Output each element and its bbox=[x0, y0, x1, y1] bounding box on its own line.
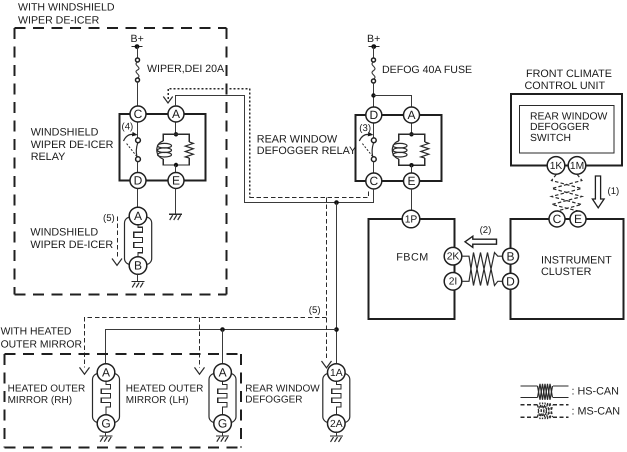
relay 2 pin A bbox=[404, 107, 420, 123]
wire mirror RH G to ground bbox=[105, 432, 107, 436]
svg-text:DEFOGGER: DEFOGGER bbox=[530, 122, 590, 133]
svg-text:CLUSTER: CLUSTER bbox=[541, 266, 592, 278]
svg-text:DEFOG 40A FUSE: DEFOG 40A FUSE bbox=[382, 64, 472, 76]
rear window defogger switch box bbox=[520, 106, 615, 154]
relay 2 pin E bbox=[404, 173, 420, 189]
relay 1 coil bbox=[157, 141, 164, 159]
FBCM box bbox=[369, 219, 455, 319]
legend: MS-CAN symbol bbox=[521, 403, 621, 419]
svg-text:DEFOGGER: DEFOGGER bbox=[245, 394, 302, 405]
wire relay1 A to relay2 C (feed wire) bbox=[176, 96, 374, 203]
FBCM pin 2K bbox=[444, 247, 462, 265]
svg-text:SWITCH: SWITCH bbox=[530, 133, 571, 144]
svg-text:(2): (2) bbox=[480, 225, 492, 236]
relay 1 pin D bbox=[130, 173, 146, 189]
wire B+ to fuse bbox=[137, 47, 139, 59]
svg-text:DEFOGGER RELAY: DEFOGGER RELAY bbox=[257, 145, 356, 157]
front climate control unit box bbox=[511, 94, 622, 165]
svg-text:WIPER DE-ICER: WIPER DE-ICER bbox=[18, 15, 100, 27]
mirror LH pin G bbox=[214, 415, 232, 433]
defogger pin 2A bbox=[328, 415, 346, 433]
svg-text:1K: 1K bbox=[550, 161, 563, 172]
relay 2 switch (3) bbox=[359, 123, 376, 173]
wire relay1 D to wiper de-icer pin A bbox=[137, 189, 139, 208]
svg-text:INSTRUMENT: INSTRUMENT bbox=[541, 255, 612, 267]
svg-text:WINDSHIELD: WINDSHIELD bbox=[30, 227, 98, 239]
relay 1 resistor bbox=[185, 142, 193, 158]
HS-CAN twisted pair FBCM to instrument cluster bbox=[462, 253, 503, 286]
fuse WIPER,DEI 20A bbox=[136, 58, 140, 82]
cluster pin B bbox=[503, 248, 519, 264]
svg-text:: HS-CAN: : HS-CAN bbox=[572, 386, 619, 398]
svg-text:REAR WINDOW: REAR WINDOW bbox=[257, 134, 338, 146]
relay 1 switch (4) bbox=[122, 122, 141, 173]
wiper de-icer pin A bbox=[129, 207, 147, 225]
node: junction heated mirror bus bbox=[334, 327, 339, 332]
mirror RH pin G bbox=[97, 415, 115, 433]
relay 1 pin C bbox=[130, 106, 146, 122]
svg-text:(4): (4) bbox=[122, 122, 134, 133]
svg-text:A: A bbox=[219, 366, 227, 380]
wire defogger 2A to ground bbox=[336, 432, 338, 436]
svg-text:CONTROL UNIT: CONTROL UNIT bbox=[525, 80, 606, 92]
wire heated mirror bus bbox=[106, 330, 337, 364]
svg-text:WINDSHIELD: WINDSHIELD bbox=[31, 126, 99, 138]
ground (mirror LH) bbox=[216, 436, 229, 442]
legend: HS-CAN symbol bbox=[521, 384, 619, 400]
mirror LH heater element bbox=[218, 381, 227, 415]
svg-text:(3): (3) bbox=[359, 123, 371, 134]
component: heated outer mirror RH bbox=[93, 364, 120, 433]
enclosure box: with windshield wiper de-icer bbox=[15, 28, 227, 295]
relay 1 pin A bbox=[168, 106, 184, 122]
cluster pin C bbox=[549, 211, 565, 227]
svg-text:1M: 1M bbox=[570, 161, 584, 172]
power B+ (defogger circuit) bbox=[367, 33, 380, 49]
signal route (5) dashed: down to heated mirrors bbox=[80, 198, 332, 375]
svg-text:G: G bbox=[101, 417, 110, 431]
svg-text:(5): (5) bbox=[309, 305, 321, 316]
FBCM pin 1P bbox=[402, 210, 420, 228]
svg-text:E: E bbox=[407, 174, 415, 188]
signal (5) label and arrow at wiper de-icer bbox=[103, 213, 122, 265]
svg-text:WIPER DE-ICER: WIPER DE-ICER bbox=[31, 139, 114, 151]
svg-text:WITH WINDSHIELD: WITH WINDSHIELD bbox=[18, 2, 115, 14]
svg-text:WIPER DE-ICER: WIPER DE-ICER bbox=[30, 239, 113, 251]
wire fuse to relay2 pin D with branch to pin A bbox=[373, 83, 375, 107]
svg-text:HEATED OUTER: HEATED OUTER bbox=[126, 384, 204, 395]
relay U2: rear window defogger relay box bbox=[356, 115, 442, 181]
svg-text:A: A bbox=[407, 108, 415, 122]
ground (wiper de-icer pin B) bbox=[132, 282, 145, 288]
node: junction mirror LH bbox=[220, 327, 225, 332]
svg-text:OUTER MIRROR: OUTER MIRROR bbox=[1, 339, 83, 350]
wire relay2 E to FBCM 1P bbox=[411, 189, 413, 210]
svg-text:B+: B+ bbox=[131, 33, 144, 45]
ground (mirror RH) bbox=[100, 436, 113, 442]
climate unit pin 1M bbox=[568, 157, 586, 175]
mirror RH heater element bbox=[101, 381, 110, 415]
wire branch to relay2 pin A bbox=[374, 96, 412, 108]
cluster pin D bbox=[503, 273, 519, 289]
wire fuse to relay pin C bbox=[137, 82, 139, 106]
relay 2 coil and resistor (parallel) bbox=[392, 123, 429, 173]
mirror LH pin A bbox=[214, 364, 232, 382]
mirror RH pin A bbox=[97, 364, 115, 382]
node: fuse branch junction bbox=[371, 93, 375, 97]
svg-text:C: C bbox=[134, 107, 143, 121]
climate unit pin 1K bbox=[547, 157, 565, 175]
power B+ (wiper de-icer circuit) bbox=[131, 33, 144, 49]
relay 2 resistor bbox=[421, 142, 429, 158]
component: rear window defogger bbox=[323, 364, 350, 433]
ground (rear window defogger) bbox=[330, 436, 343, 442]
svg-text:E: E bbox=[574, 212, 582, 226]
relay 2 pin C bbox=[366, 173, 382, 189]
svg-text:REAR WINDOW: REAR WINDOW bbox=[245, 383, 320, 394]
relay 2 pin D bbox=[366, 107, 382, 123]
svg-text:D: D bbox=[369, 108, 378, 122]
wire relay1 E to ground bbox=[175, 189, 177, 215]
relay U1: windshield wiper de-icer relay box bbox=[120, 114, 206, 181]
svg-text:REAR WINDOW: REAR WINDOW bbox=[530, 111, 608, 122]
arrow (1) signal direction bbox=[592, 176, 619, 208]
svg-text:D: D bbox=[134, 174, 143, 188]
svg-text:D: D bbox=[506, 274, 515, 288]
relay 1 coil and resistor (parallel) bbox=[157, 122, 194, 173]
svg-text:2A: 2A bbox=[330, 419, 343, 430]
arrowhead into mirror RH bbox=[80, 367, 90, 374]
defogger pin 1A bbox=[328, 364, 346, 382]
enclosure box: with heated outer mirror bbox=[5, 354, 242, 448]
fuse DEFOG 40A bbox=[372, 58, 376, 83]
svg-text:B: B bbox=[506, 249, 514, 263]
component: heated outer mirror LH bbox=[209, 364, 236, 433]
svg-text:MIRROR (RH): MIRROR (RH) bbox=[8, 395, 72, 406]
svg-text:E: E bbox=[172, 174, 180, 188]
svg-text:1A: 1A bbox=[330, 368, 343, 379]
arrow (2) signal direction bbox=[465, 225, 497, 247]
svg-text:(5): (5) bbox=[103, 213, 115, 224]
svg-text:HEATED OUTER: HEATED OUTER bbox=[8, 384, 86, 395]
wire junction down to rear window defogger 1A bbox=[336, 203, 338, 364]
wiper de-icer pin B bbox=[129, 257, 147, 275]
svg-text:FRONT CLIMATE: FRONT CLIMATE bbox=[526, 68, 612, 80]
svg-text:MIRROR (LH): MIRROR (LH) bbox=[126, 395, 189, 406]
signal route (5) dotted: relay1 A area to relay2 C bbox=[163, 89, 368, 198]
svg-text:A: A bbox=[134, 209, 142, 223]
svg-text:(1): (1) bbox=[608, 186, 620, 197]
component: windshield wiper de-icer (outline) bbox=[125, 217, 152, 265]
svg-text:: MS-CAN: : MS-CAN bbox=[572, 406, 621, 418]
svg-text:C: C bbox=[553, 212, 562, 226]
wire mirror LH G to ground bbox=[222, 432, 224, 436]
svg-text:FBCM: FBCM bbox=[396, 251, 429, 263]
svg-text:B: B bbox=[134, 259, 142, 273]
svg-text:G: G bbox=[218, 417, 227, 431]
svg-text:1P: 1P bbox=[405, 214, 418, 225]
relay 1 pin E bbox=[168, 173, 184, 189]
svg-text:B+: B+ bbox=[367, 33, 380, 45]
defogger heater element bbox=[332, 381, 341, 415]
svg-text:2K: 2K bbox=[447, 252, 460, 263]
FBCM pin 2I bbox=[444, 273, 462, 291]
svg-text:2I: 2I bbox=[449, 277, 458, 288]
ground (relay 1 pin E) bbox=[169, 214, 182, 220]
wire wiper de-icer B to ground bbox=[137, 274, 139, 281]
svg-text:WITH HEATED: WITH HEATED bbox=[1, 327, 72, 338]
MS-CAN twisted pair climate unit to cluster bbox=[552, 174, 582, 211]
svg-text:RELAY: RELAY bbox=[31, 151, 66, 163]
wire bus to mirror LH pin A bbox=[222, 330, 224, 364]
wiper de-icer heater element bbox=[134, 225, 143, 257]
svg-text:WIPER,DEI 20A: WIPER,DEI 20A bbox=[147, 63, 225, 75]
svg-text:C: C bbox=[369, 174, 378, 188]
relay 2 coil bbox=[392, 141, 399, 159]
cluster pin E bbox=[570, 211, 586, 227]
wire B+ to fuse bbox=[373, 47, 375, 59]
arrowhead into rear window defogger bbox=[322, 361, 332, 368]
instrument cluster box bbox=[511, 219, 624, 319]
svg-text:A: A bbox=[172, 107, 180, 121]
arrowhead into mirror LH bbox=[195, 367, 205, 374]
node: junction on feed wire to rear defogger bbox=[334, 200, 339, 205]
svg-text:A: A bbox=[102, 366, 110, 380]
